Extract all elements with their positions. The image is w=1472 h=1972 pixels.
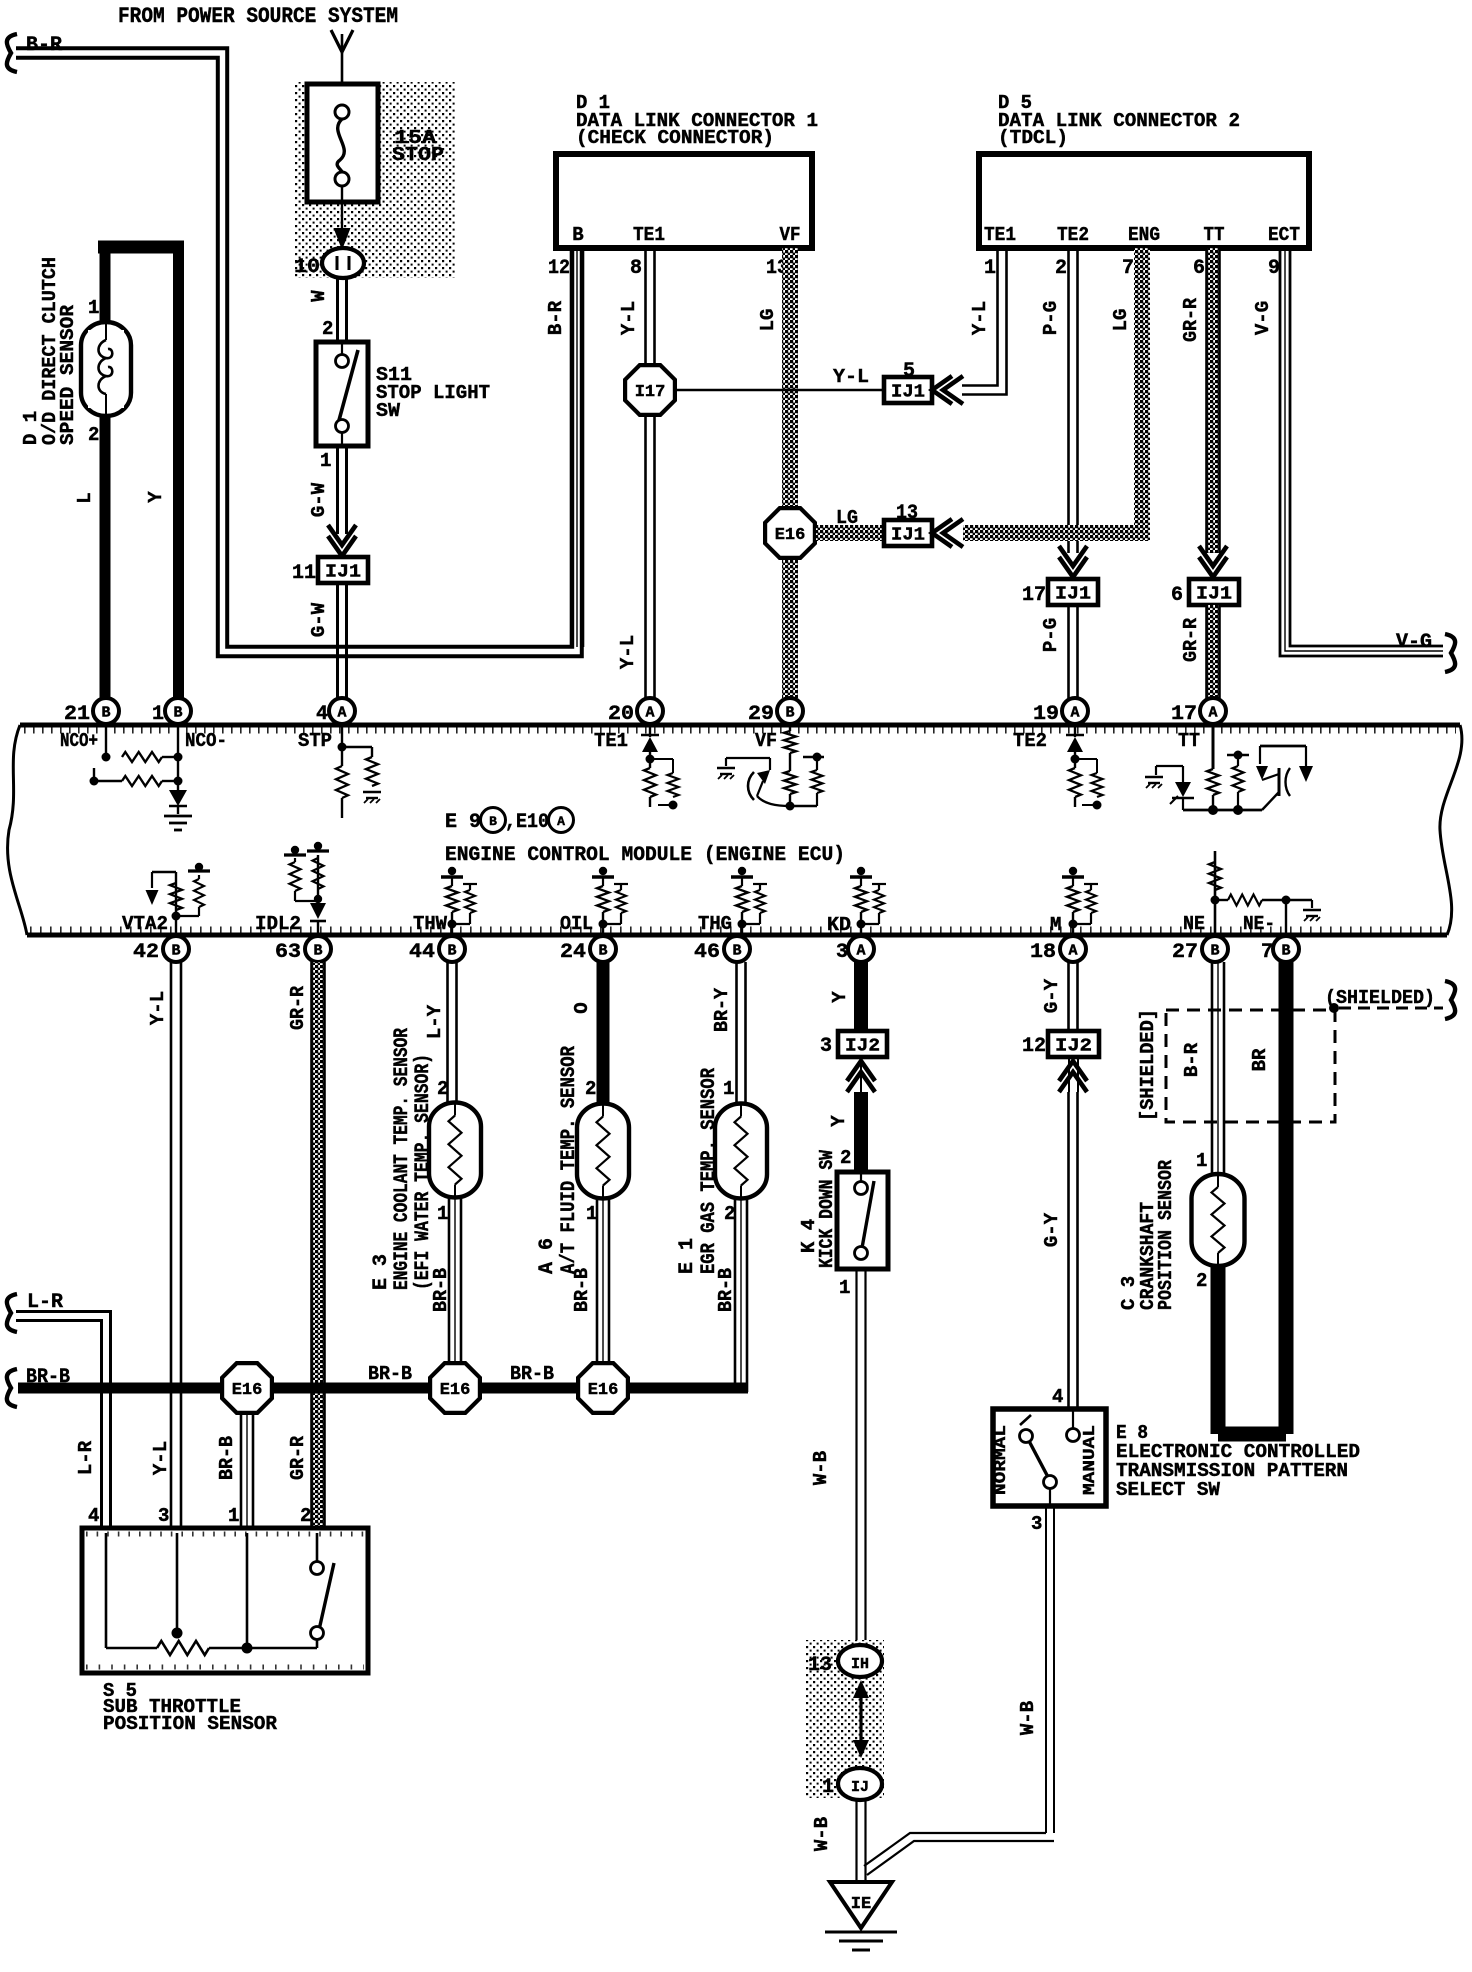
ECU pin 1 B NCO- — [165, 698, 191, 724]
svg-text:1: 1 — [586, 1203, 597, 1225]
svg-text:B: B — [732, 943, 741, 960]
svg-text:B: B — [572, 224, 583, 246]
svg-text:2: 2 — [724, 1203, 735, 1225]
wire B-R from power source (break) at top left — [7, 34, 17, 72]
wire W from connector II to stop light switch — [336, 278, 339, 406]
svg-text:E16: E16 — [440, 1381, 471, 1400]
ground symbol below IE — [825, 1931, 897, 1934]
svg-text:Y: Y — [829, 991, 851, 1003]
svg-text:BR-B: BR-B — [368, 1363, 412, 1385]
svg-text:19: 19 — [1033, 703, 1059, 726]
svg-text:BR-B: BR-B — [430, 1268, 452, 1312]
wire GR-R from IJ1 to ECU pin 17 — [1207, 605, 1219, 700]
svg-text:7: 7 — [1261, 941, 1273, 964]
svg-text:BR-B: BR-B — [510, 1363, 554, 1385]
svg-text:E 1: E 1 — [676, 1238, 699, 1274]
svg-text:EGR GAS TEMP. SENSOR: EGR GAS TEMP. SENSOR — [698, 1068, 721, 1274]
svg-text:NORMAL: NORMAL — [992, 1425, 1011, 1495]
ECU internal NE NE- network — [1214, 851, 1217, 933]
svg-text:MANUAL: MANUAL — [1081, 1425, 1100, 1495]
svg-text:NCO+: NCO+ — [60, 730, 98, 752]
svg-text:B: B — [489, 814, 497, 829]
svg-text:VF: VF — [780, 224, 801, 246]
svg-text:4: 4 — [1052, 1386, 1063, 1408]
svg-text:2: 2 — [1055, 257, 1067, 280]
svg-text:I17: I17 — [635, 383, 666, 402]
arrowhead into connector II — [334, 228, 351, 250]
wire from power source into fuse — [341, 34, 344, 96]
ECU pin 21 B NCO+ — [93, 698, 119, 724]
arrow into junction IJ1 — [328, 536, 356, 556]
svg-text:IJ2: IJ2 — [1055, 1037, 1092, 1057]
ECU pin 19 A TE2 — [1062, 698, 1088, 724]
svg-text:B-R: B-R — [1181, 1042, 1203, 1077]
svg-text:L-Y: L-Y — [424, 1004, 446, 1039]
shield dashed box around crankshaft sensor wires — [1166, 1010, 1335, 1122]
shaded area around connectors IH IJ — [806, 1640, 884, 1798]
svg-text:W: W — [308, 290, 330, 302]
arrow out of 12 IJ2 — [1059, 1061, 1087, 1081]
svg-text:L-R: L-R — [75, 1440, 97, 1475]
wire BR-B bus from left break — [7, 1369, 17, 1407]
svg-text:TE1: TE1 — [984, 224, 1016, 246]
wire GR-R from D5 pin 6 to junction IJ1 (6) — [1207, 248, 1219, 553]
ECU internal diode at NCO- to ground — [169, 790, 187, 806]
svg-text:17: 17 — [1171, 703, 1197, 726]
svg-text:IJ1: IJ1 — [891, 526, 925, 546]
svg-text:BR: BR — [1249, 1048, 1271, 1071]
wire B-R from ECU pin 27 to crankshaft sensor pin 1 — [1211, 962, 1214, 1174]
junction connector 11 IJ1 — [318, 557, 368, 583]
wire G-Y from IJ2 to select switch pin 4 — [1067, 1092, 1070, 1409]
wire Y-L from D1 pin 8 to junction I17 — [644, 248, 647, 364]
ECU internal TE1 diode and resistors — [649, 724, 651, 737]
svg-text:1: 1 — [839, 1277, 850, 1299]
svg-text:VTA2: VTA2 — [122, 913, 168, 935]
svg-text:A: A — [856, 943, 865, 960]
svg-text:V-G: V-G — [1396, 631, 1432, 654]
svg-text:B: B — [1210, 943, 1219, 960]
junction E16 below A/T fluid temp sensor — [578, 1363, 628, 1413]
ground point IE — [830, 1882, 892, 1928]
wire W-B from IJ to ground point IE — [855, 1800, 857, 1884]
wire P-G from D5 pin 2 to junction IJ1 (17) — [1067, 248, 1070, 553]
switch K 4 KICK DOWN SW — [837, 1172, 888, 1269]
svg-text:1: 1 — [152, 703, 164, 726]
wire Y-L from ECU pin 42 to sub throttle sensor pin 3 — [170, 962, 173, 1528]
svg-text:KICK DOWN SW: KICK DOWN SW — [816, 1149, 838, 1268]
texture ticks along ECU band edges — [24, 728, 1456, 734]
svg-text:G-Y: G-Y — [1041, 978, 1063, 1013]
svg-text:1: 1 — [1196, 1150, 1207, 1172]
svg-text:12: 12 — [548, 257, 570, 280]
svg-text:ENGINE CONTROL MODULE (ENGINE: ENGINE CONTROL MODULE (ENGINE ECU) — [445, 844, 845, 867]
fuse 15A STOP — [307, 84, 378, 202]
svg-text:21: 21 — [64, 703, 90, 726]
wire GR-R from ECU pin 63 to sub throttle sensor pin 2 — [312, 962, 324, 1528]
svg-text:TE2: TE2 — [1013, 730, 1047, 752]
svg-text:(SHIELDED): (SHIELDED) — [1325, 987, 1435, 1009]
wire BR-Y from ECU pin 46 to EGR gas temp sensor — [735, 962, 738, 1104]
svg-text:A: A — [1208, 705, 1217, 722]
wire W-B elbow to ground wire — [864, 1833, 1046, 1866]
wire O from ECU pin 24 to A/T fluid temp sensor — [597, 962, 610, 1104]
ECU internal THW network — [451, 912, 453, 933]
svg-text:E16: E16 — [232, 1381, 263, 1400]
ECU pin 4 A STP — [329, 698, 355, 724]
svg-text:10: 10 — [294, 256, 320, 279]
sensor D 1 O/D DIRECT CLUTCH SPEED SENSOR — [98, 241, 184, 254]
svg-text:BR-B: BR-B — [715, 1268, 737, 1312]
svg-text:2: 2 — [840, 1147, 851, 1169]
wire Y-L from D5 pin 1 to IJ1 — [962, 248, 1007, 395]
svg-text:3: 3 — [158, 1505, 169, 1527]
ECU internal M network — [1072, 912, 1074, 933]
svg-text:LG: LG — [757, 309, 779, 332]
svg-text:P-G: P-G — [1040, 618, 1062, 652]
texture ticks along sub throttle sensor box — [86, 1532, 364, 1537]
svg-text:12: 12 — [1022, 1035, 1046, 1058]
svg-text:VF: VF — [755, 730, 777, 752]
svg-text:O: O — [571, 1002, 593, 1013]
svg-text:A: A — [1070, 705, 1079, 722]
svg-text:9: 9 — [1268, 257, 1280, 280]
arrow into junction 17 IJ1 — [1059, 557, 1087, 577]
svg-text:TT: TT — [1204, 224, 1225, 246]
svg-text:IJ1: IJ1 — [325, 563, 361, 583]
svg-text:LG: LG — [1110, 309, 1132, 332]
svg-text:B: B — [785, 705, 794, 722]
wire G-W from S11 to junction IJ1 — [336, 446, 339, 534]
svg-text:BR-B: BR-B — [216, 1436, 238, 1480]
svg-text:27: 27 — [1172, 941, 1198, 964]
svg-text:E16: E16 — [588, 1381, 619, 1400]
svg-text:P-G: P-G — [1040, 301, 1062, 335]
svg-text:B: B — [1281, 943, 1290, 960]
wire Y from ECU pin 3 to junction IJ2 — [854, 962, 868, 1031]
module E 9 E10 ENGINE CONTROL MODULE (ENGINE ECU) band — [20, 723, 1460, 728]
svg-text:Y: Y — [828, 1115, 850, 1127]
svg-text:W-B: W-B — [811, 1817, 833, 1851]
arrow into junction 6 IJ1 — [1199, 557, 1227, 577]
svg-text:STOP: STOP — [392, 144, 444, 166]
svg-text:Y-L: Y-L — [833, 366, 869, 388]
svg-text:Y-L: Y-L — [150, 1441, 172, 1475]
wire G-Y from ECU pin 18 to junction IJ2 — [1067, 962, 1070, 1031]
wire P-G from IJ1 to ECU pin 19 — [1067, 605, 1070, 700]
switch E 8 ELECTRONIC CONTROLLED TRANSMISSION PATTERN SELECT SW — [993, 1409, 1106, 1506]
svg-text:A 6: A 6 — [536, 1238, 559, 1274]
svg-text:M: M — [1050, 914, 1061, 936]
svg-text:B: B — [173, 705, 182, 722]
wire B-R loop to data link connector 1 pin 12 — [16, 48, 572, 647]
switch S11 STOP LIGHT SW — [316, 342, 368, 446]
wire BR-B from E16 down to sub throttle sensor pin 1 — [240, 1413, 243, 1528]
svg-text:1: 1 — [228, 1505, 239, 1527]
ECU pin 17 A TT — [1200, 698, 1226, 724]
ECU internal KD network — [860, 912, 862, 933]
svg-text:1: 1 — [723, 1078, 734, 1100]
svg-text:2: 2 — [88, 424, 99, 446]
svg-text:1: 1 — [984, 257, 996, 280]
connector 13 IH — [838, 1645, 882, 1677]
wire B-R from D1 pin 12 to ECU region — [570, 248, 573, 647]
svg-text:6: 6 — [1171, 584, 1183, 607]
junction connector 6 IJ1 — [1189, 579, 1239, 605]
svg-text:IE: IE — [851, 1895, 871, 1914]
svg-text:G-W: G-W — [308, 602, 330, 637]
arrow into IJ1 from TDCL TE1 — [932, 376, 952, 404]
svg-text:GR-R: GR-R — [287, 1435, 309, 1480]
ECU pin 24 B OIL — [590, 936, 616, 962]
ECU internal THG network — [741, 912, 743, 933]
svg-text:G-Y: G-Y — [1041, 1212, 1063, 1247]
svg-text:TE1: TE1 — [633, 224, 665, 246]
svg-text:Y-L: Y-L — [617, 635, 639, 669]
svg-text:(EFI WATER TEMP. SENSOR): (EFI WATER TEMP. SENSOR) — [412, 1054, 435, 1290]
svg-text:IJ1: IJ1 — [891, 383, 925, 403]
svg-text:Y-L: Y-L — [618, 301, 640, 335]
junction I17 on TE1 wire — [625, 365, 675, 415]
ECU internal VF transistor network — [789, 724, 791, 731]
svg-text:11: 11 — [292, 562, 316, 585]
ECU pin 20 A TE1 — [637, 698, 663, 724]
svg-text:3: 3 — [820, 1035, 832, 1058]
svg-text:B: B — [447, 943, 456, 960]
svg-text:THG: THG — [698, 913, 732, 935]
svg-text:SELECT SW: SELECT SW — [1116, 1479, 1221, 1501]
wire W-B from kick down switch to connector IH — [855, 1269, 857, 1645]
svg-text:B-R: B-R — [545, 300, 567, 335]
wire L-R from left break to sub throttle sensor pin 4 — [7, 1294, 17, 1332]
svg-text:THW: THW — [413, 913, 448, 935]
svg-text:B: B — [598, 943, 607, 960]
svg-text:BR-B: BR-B — [571, 1268, 593, 1312]
svg-text:OIL: OIL — [560, 913, 593, 935]
svg-text:W-B: W-B — [1017, 1701, 1039, 1735]
svg-text:NE-: NE- — [1243, 913, 1275, 935]
junction connector 5 IJ1 — [884, 377, 932, 403]
ECU internal STP resistor network — [341, 724, 343, 766]
svg-text:E 3: E 3 — [370, 1254, 393, 1290]
wire BR from ECU pin 7 down — [1279, 962, 1294, 1434]
svg-text:NE: NE — [1183, 913, 1205, 935]
svg-text:A: A — [1068, 943, 1077, 960]
svg-text:A: A — [337, 705, 346, 722]
wire BR loop from crankshaft sensor pin 2 — [1211, 1266, 1226, 1434]
svg-text:,E10: ,E10 — [505, 811, 549, 834]
svg-text:GR-R: GR-R — [1180, 617, 1202, 662]
svg-text:1: 1 — [88, 297, 99, 319]
svg-text:A: A — [557, 814, 565, 829]
svg-text:KD: KD — [827, 914, 851, 936]
svg-text:18: 18 — [1030, 941, 1056, 964]
svg-text:SPEED SENSOR: SPEED SENSOR — [57, 304, 79, 445]
svg-text:Y-L: Y-L — [969, 301, 991, 335]
sensor S 5 SUB THROTTLE POSITION SENSOR box — [82, 1528, 368, 1673]
svg-text:Y: Y — [145, 491, 167, 503]
break on V-G wire — [1445, 634, 1455, 672]
svg-text:GR-R: GR-R — [287, 985, 309, 1030]
junction E16 on BR-B bus below sub throttle sensor — [222, 1363, 272, 1413]
svg-text:ENGINE COOLANT TEMP. SENSOR: ENGINE COOLANT TEMP. SENSOR — [391, 1028, 414, 1290]
svg-text:17: 17 — [1022, 584, 1046, 607]
svg-text:A/T FLUID TEMP. SENSOR: A/T FLUID TEMP. SENSOR — [558, 1046, 581, 1274]
ECU pin 27 B NE — [1202, 936, 1228, 962]
svg-text:IJ2: IJ2 — [845, 1037, 880, 1057]
ECU internal VTA2 network — [175, 872, 177, 933]
ECU internal TT transistor network — [1212, 727, 1215, 769]
svg-text:V-G: V-G — [1252, 301, 1274, 335]
arrow out of 3 IJ2 — [847, 1061, 875, 1081]
svg-text:7: 7 — [1122, 257, 1134, 280]
svg-text:46: 46 — [694, 941, 720, 964]
wire BR-B from A/T sensor to junction E16 — [596, 1198, 599, 1362]
svg-text:TE1: TE1 — [594, 730, 628, 752]
svg-text:(CHECK CONNECTOR): (CHECK CONNECTOR) — [576, 127, 774, 149]
idle switch inside sub throttle sensor — [246, 1533, 249, 1648]
svg-text:Y-L: Y-L — [147, 991, 169, 1025]
svg-text:NCO-: NCO- — [185, 730, 227, 752]
potentiometer inside sub throttle sensor — [105, 1533, 108, 1648]
svg-text:3: 3 — [836, 941, 848, 964]
svg-text:IJ: IJ — [851, 1779, 869, 1796]
svg-text:24: 24 — [560, 941, 586, 964]
svg-text:ECT: ECT — [1268, 224, 1300, 246]
svg-text:1: 1 — [437, 1203, 448, 1225]
svg-text:29: 29 — [748, 703, 774, 726]
svg-text:IDL2: IDL2 — [255, 913, 301, 935]
svg-text:3: 3 — [1031, 1513, 1042, 1535]
svg-text:2: 2 — [322, 318, 333, 340]
ECU pin 44 B THW — [439, 936, 465, 962]
svg-text:TT: TT — [1178, 730, 1200, 752]
junction connector 17 IJ1 — [1048, 579, 1098, 605]
svg-text:BR-Y: BR-Y — [711, 987, 733, 1032]
wire Y-L from I17 down to ECU pin 20 — [644, 416, 647, 700]
svg-text:42: 42 — [133, 941, 159, 964]
junction E16 below coolant temp sensor — [430, 1363, 480, 1413]
svg-text:8: 8 — [630, 257, 642, 280]
svg-text:STP: STP — [298, 730, 332, 752]
ground inside ECU at NCO- — [164, 815, 192, 818]
svg-text:20: 20 — [608, 703, 634, 726]
ground inside ECU at STP — [363, 791, 381, 794]
svg-text:IJ1: IJ1 — [1196, 585, 1232, 605]
svg-text:POSITION SENSOR: POSITION SENSOR — [1155, 1159, 1177, 1310]
svg-text:TE2: TE2 — [1057, 224, 1089, 246]
wire LG from D1 pin 13 down to ECU pin 29 — [782, 248, 798, 698]
svg-text:B: B — [313, 943, 322, 960]
svg-text:B: B — [171, 943, 180, 960]
wire Y-L from I17 to junction IJ1 (5) — [677, 389, 884, 392]
ECU pin 18 A M — [1060, 936, 1086, 962]
svg-text:GR-R: GR-R — [1180, 297, 1202, 342]
svg-text:FROM POWER SOURCE SYSTEM: FROM POWER SOURCE SYSTEM — [118, 4, 398, 29]
wire V-G from D5 pin 9 to right break — [1290, 248, 1443, 646]
svg-text:13: 13 — [808, 1654, 832, 1677]
svg-text:ENG: ENG — [1128, 224, 1160, 246]
wire G-W from IJ1 to ECU pin 4 — [336, 583, 339, 700]
svg-text:G-W: G-W — [308, 482, 330, 517]
arrows between IH and IJ — [853, 1680, 869, 1698]
svg-text:E16: E16 — [775, 526, 806, 545]
ECU internal IDL2 network — [317, 921, 319, 933]
svg-text:2: 2 — [585, 1078, 596, 1100]
svg-text:IH: IH — [851, 1656, 869, 1673]
connector 10 II — [322, 248, 364, 278]
svg-text:[SHIELDED]: [SHIELDED] — [1137, 1009, 1159, 1121]
wire BR-B from coolant sensor to junction E16 — [448, 1197, 451, 1362]
svg-text:44: 44 — [409, 941, 435, 964]
junction connector 3 IJ2 — [838, 1031, 887, 1057]
svg-text:L: L — [74, 492, 96, 503]
junction connector 12 IJ2 — [1048, 1031, 1099, 1057]
svg-text:POSITION SENSOR: POSITION SENSOR — [103, 1713, 278, 1735]
svg-text:B: B — [101, 705, 110, 722]
ECU internal TE2 diode and resistors — [1074, 724, 1076, 737]
ECU internal NCO+ NCO- resistor network — [105, 724, 107, 757]
svg-text:2: 2 — [437, 1078, 448, 1100]
wire Y from IJ2 to kick down switch — [854, 1092, 868, 1172]
ECU pin 3 A KD — [848, 936, 874, 962]
connector 1 IJ — [838, 1768, 882, 1800]
arrow into 13 IJ1 — [932, 519, 952, 547]
ECU pin 7 B NE- — [1273, 936, 1299, 962]
svg-text:2: 2 — [1196, 1270, 1207, 1292]
svg-text:A: A — [645, 705, 654, 722]
wire LG from D5 pin 7 to junction IJ1 (13) — [1134, 248, 1150, 526]
ECU pin 42 B VTA2 — [163, 936, 189, 962]
svg-text:4: 4 — [316, 703, 328, 726]
ground inside ECU at NE- — [1303, 909, 1321, 912]
wire L-Y from ECU pin 44 to coolant temp sensor — [446, 962, 449, 1103]
svg-text:4: 4 — [88, 1505, 99, 1527]
ECU internal OIL network — [602, 912, 604, 933]
svg-text:2: 2 — [300, 1505, 311, 1527]
svg-text:B-R: B-R — [26, 34, 62, 57]
svg-text:1: 1 — [822, 1776, 834, 1799]
ECU pin 63 B IDL2 — [305, 936, 331, 962]
shaded area around fuse — [294, 82, 455, 278]
svg-text:SW: SW — [376, 400, 401, 422]
ECU pin 46 B THG — [724, 936, 750, 962]
svg-text:6: 6 — [1193, 257, 1205, 280]
junction E16 on VF wire — [765, 508, 815, 558]
wire BR-B from EGR sensor down to BR-B bus — [734, 1198, 737, 1392]
svg-text:IJ1: IJ1 — [1055, 585, 1091, 605]
ECU pin 29 B VF — [777, 698, 803, 724]
svg-text:1: 1 — [320, 450, 331, 472]
svg-text:(TDCL): (TDCL) — [998, 127, 1068, 149]
svg-text:W-B: W-B — [810, 1451, 832, 1485]
svg-text:63: 63 — [275, 941, 301, 964]
svg-text:E 9: E 9 — [445, 811, 481, 834]
